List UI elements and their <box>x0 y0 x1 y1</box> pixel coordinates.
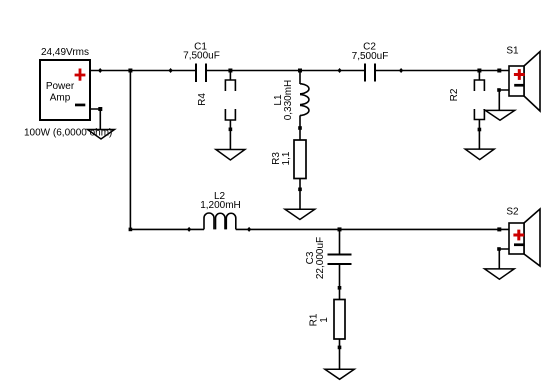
ground (S1 minus) <box>485 110 514 120</box>
wire: bottom rail from L2 to speaker S2 <box>236 228 509 230</box>
label L1 value <box>273 80 294 121</box>
junction at L1 branch <box>298 69 302 73</box>
wire: lead from top rail into L1 <box>299 71 301 85</box>
svg-text:1: 1 <box>319 317 330 323</box>
wire: R3 to ground <box>299 179 301 210</box>
svg-text:24,49Vrms: 24,49Vrms <box>41 47 89 58</box>
arrow marker on wire at x=339 <box>337 68 341 73</box>
wire: bottom rail from corner to L2 <box>130 228 204 230</box>
junction at R2 branch <box>477 69 481 73</box>
wire: top rail, amp output to C1 left plate <box>90 70 196 72</box>
wire: lead from top rail into R4 <box>229 71 231 81</box>
svg-text:R2: R2 <box>449 88 460 101</box>
wire: L1 to R3 <box>299 115 301 140</box>
junction at S2 plus node <box>497 227 501 231</box>
junction on R1 ground wire <box>338 346 342 350</box>
junction between L1 and R3 <box>298 126 302 130</box>
speaker S1 <box>509 52 540 112</box>
wire: S1 minus to ground node <box>499 90 509 110</box>
svg-text:R1: R1 <box>309 313 320 326</box>
capacitor C2 <box>365 64 375 82</box>
ground (R3) <box>285 209 315 219</box>
junction on R2 ground wire <box>478 128 482 132</box>
capacitor C3 <box>328 255 352 265</box>
arrow marker on bottom rail at x=249 <box>247 227 251 232</box>
wire: lead from top rail into R2 <box>478 71 480 81</box>
ground (R1) <box>325 369 354 379</box>
label R4 <box>197 93 208 106</box>
ground (amp minus) <box>88 130 115 140</box>
resistor R4 (open-box style) <box>225 80 235 120</box>
ground (S2 minus) <box>485 269 515 279</box>
svg-text:1,1: 1,1 <box>281 151 292 165</box>
junction at amp minus corner <box>98 107 102 111</box>
svg-text:R4: R4 <box>197 93 208 106</box>
label 100W (6,0000 ohm) <box>24 128 112 139</box>
arrow marker on bottom rail at x=189 <box>187 227 191 232</box>
inductor L1 <box>300 84 309 116</box>
arrow marker on wire at x=100 <box>98 68 102 73</box>
junction at S2 minus corner <box>497 247 501 251</box>
label R1 value <box>309 313 331 326</box>
ground (R4) <box>216 150 245 161</box>
svg-text:7,500uF: 7,500uF <box>183 51 220 62</box>
resistor R3 <box>294 140 306 179</box>
wire: R2 to ground <box>478 120 480 150</box>
label L2 value <box>200 191 241 211</box>
svg-text:1,200mH: 1,200mH <box>200 200 241 211</box>
junction at S1 plus node <box>497 69 501 73</box>
svg-text:7,500uF: 7,500uF <box>352 51 389 62</box>
wire: C3 to R1 <box>339 264 341 300</box>
junction between C3 and R1 <box>338 286 342 290</box>
svg-text:0,330mH: 0,330mH <box>283 80 294 121</box>
wire: top rail, C1 to C2 <box>206 70 365 72</box>
svg-text:Power: Power <box>46 81 75 92</box>
wire: amp minus to ground node <box>90 109 100 130</box>
label R2 <box>449 88 460 101</box>
junction node A (top of vertical rail) <box>128 69 132 73</box>
label S2 <box>506 206 519 217</box>
speaker S2 <box>509 209 540 266</box>
label S1 <box>506 45 519 56</box>
wire: top rail, C2 to speaker S1 <box>375 70 509 72</box>
junction at C3 branch <box>338 227 342 231</box>
junction on R4 ground wire <box>229 128 233 132</box>
svg-text:Amp: Amp <box>50 93 71 104</box>
label C1 value <box>183 42 220 62</box>
inductor L2 <box>204 213 236 229</box>
junction at S1 minus corner <box>497 88 501 92</box>
svg-text:S2: S2 <box>506 206 519 217</box>
resistor R2 (open-box style) <box>474 80 484 120</box>
resistor R1 <box>334 300 345 340</box>
wire: R4 to ground <box>229 120 231 150</box>
wire: R1 to ground <box>339 339 341 369</box>
wire: S2 minus to ground node <box>499 249 509 269</box>
wire: lead from bottom rail into C3 <box>339 229 341 254</box>
label C3 value <box>305 237 326 279</box>
junction at bottom rail left corner <box>129 228 133 232</box>
label R3 value <box>271 151 292 165</box>
svg-text:22,000uF: 22,000uF <box>315 237 326 279</box>
wire: vertical rail from node A down to bottom rail <box>129 71 131 230</box>
arrow marker on wire at x=401 <box>399 68 403 73</box>
junction on R3 ground wire <box>298 188 302 192</box>
arrow marker on wire at x=170 <box>168 68 172 73</box>
power amp source V1 box <box>40 60 90 120</box>
ground (R2) <box>465 149 494 160</box>
label 24,49Vrms <box>41 47 89 58</box>
junction at R4 branch <box>228 69 232 73</box>
label C2 value <box>352 42 389 63</box>
capacitor C1 <box>196 64 206 83</box>
svg-text:S1: S1 <box>506 45 519 56</box>
